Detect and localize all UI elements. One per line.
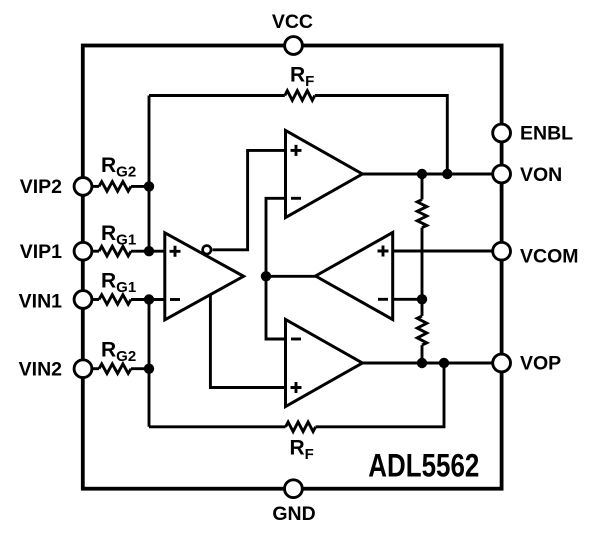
svg-text:ENBL: ENBL <box>520 122 573 144</box>
wire: resistor chain middle segment <box>421 228 424 316</box>
pin VIN1 <box>74 291 92 309</box>
pin VIN2 <box>74 360 92 378</box>
svg-text:RF: RF <box>290 437 314 464</box>
wire: RG2 to node <box>131 185 149 188</box>
U3 plus mark <box>378 246 389 257</box>
wire: VIP1 pin to RG1 <box>92 250 99 253</box>
svg-text:VIN2: VIN2 <box>19 359 63 381</box>
wire: U3 + input to VCOM <box>393 250 502 253</box>
U4 minus mark <box>291 338 301 341</box>
resistor RG2 (VIP2 row) <box>99 182 131 192</box>
resistor RG1 (VIN1 row) <box>99 295 131 305</box>
svg-text:VIP2: VIP2 <box>20 176 62 198</box>
wire: U1 lower output tap to U4 + input <box>210 295 285 388</box>
U2 plus mark <box>291 145 302 156</box>
wire: VIP2 pin to RG2 <box>92 185 99 188</box>
wire: bottom feedback left segment <box>149 425 286 428</box>
wire: left inner bus (top, RF to RG1 node) <box>148 96 151 252</box>
svg-text:ADL5562: ADL5562 <box>368 448 479 484</box>
node: RG2/feedback junction (VIP2 row) <box>144 181 154 191</box>
wire: center line (U2 - input to U4 - input) <box>266 198 286 339</box>
U4 plus mark <box>291 382 302 393</box>
svg-text:RG2: RG2 <box>101 154 136 181</box>
wire: VIN1 pin to RG1 <box>92 298 99 301</box>
U3 minus mark <box>378 298 388 301</box>
node: R1/R2 midpoint / U3 - input junction <box>417 294 427 304</box>
wire: resistor chain top segment <box>421 174 424 200</box>
resistor RG1 (VIP1 row) <box>99 246 131 256</box>
U1 plus mark <box>170 246 181 257</box>
node: VON line / top feedback junction <box>442 169 452 179</box>
wire: bubble to U2 + input <box>213 150 286 249</box>
outer box <box>83 46 502 489</box>
wire: bottom feedback right segment up to VOP line <box>316 363 444 427</box>
op-amp U4 (bottom) <box>286 320 363 407</box>
U1 output bubble <box>203 246 211 254</box>
wire: RG2 to node <box>131 367 149 370</box>
pin VCOM <box>493 242 511 260</box>
node: RG1/U1- junction <box>144 294 154 304</box>
wire: U2 output to VON <box>362 173 501 176</box>
resistor RF (bottom) <box>286 422 316 432</box>
node: RG2/feedback junction (VIN2 row) <box>144 364 154 374</box>
U1 minus mark <box>170 298 180 301</box>
wire: U3 - input to resistor node <box>393 298 422 301</box>
wire: top feedback left segment <box>149 94 285 97</box>
resistor R1 (VON to midpoint) <box>417 200 427 228</box>
U2 minus mark <box>291 197 301 200</box>
wire: U4 output to VOP <box>362 362 501 365</box>
pin VIP2 <box>74 178 92 196</box>
wire: RG1 node to amp U1 - input <box>131 298 165 301</box>
wire: VIN2 pin to RG2 <box>92 367 99 370</box>
resistor R2 (midpoint to VOP) <box>417 316 427 345</box>
svg-text:RG2: RG2 <box>101 338 136 365</box>
svg-text:RG1: RG1 <box>101 222 136 249</box>
resistor RF (top) <box>285 91 315 101</box>
svg-text:RG1: RG1 <box>101 270 136 297</box>
op-amp U2 (top) <box>286 131 363 218</box>
node: RG1/U1+ junction <box>144 246 154 256</box>
svg-text:VON: VON <box>520 164 562 186</box>
svg-text:VIN1: VIN1 <box>19 291 63 313</box>
node: U3 output / center line junction <box>261 271 271 281</box>
pin ENBL <box>493 124 511 142</box>
pin VIP1 <box>74 242 92 260</box>
wire: resistor chain bottom segment <box>421 345 424 363</box>
resistor RG2 (VIN2 row) <box>99 364 131 374</box>
pin VOP <box>493 354 511 372</box>
node: VOP line / R2 junction <box>417 358 427 368</box>
pin GND <box>285 480 303 498</box>
wire: center node to U3 output tip <box>266 275 316 278</box>
op-amp U3 (middle, common-mode) <box>316 233 393 320</box>
node: VOP line / bottom feedback junction <box>439 358 449 368</box>
pin VCC <box>285 37 303 55</box>
svg-text:VOP: VOP <box>520 353 561 375</box>
node: VON line / R1 junction <box>417 169 427 179</box>
op-amp U1 (input stage) <box>165 233 244 320</box>
svg-text:RF: RF <box>290 63 314 90</box>
wire: RG1 node to amp U1 + input <box>131 250 165 253</box>
wire: top feedback right segment down to VON line <box>315 96 448 175</box>
svg-text:VCOM: VCOM <box>520 245 579 267</box>
svg-text:VIP1: VIP1 <box>20 241 62 263</box>
svg-text:VCC: VCC <box>272 11 313 33</box>
pin VON <box>493 165 511 183</box>
svg-text:GND: GND <box>272 503 315 525</box>
wire: left inner bus (bottom, RG1 node to bottom feedback) <box>148 300 151 427</box>
